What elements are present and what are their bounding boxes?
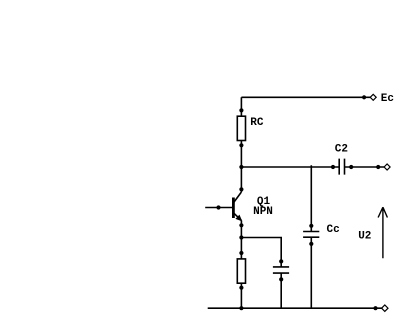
- svg-text:U2: U2: [358, 231, 371, 243]
- svg-text:NPN: NPN: [253, 206, 273, 218]
- svg-text:RC: RC: [250, 117, 264, 129]
- svg-text:Ec: Ec: [381, 93, 394, 105]
- svg-text:C2: C2: [335, 144, 348, 156]
- svg-text:Cc: Cc: [327, 224, 340, 236]
